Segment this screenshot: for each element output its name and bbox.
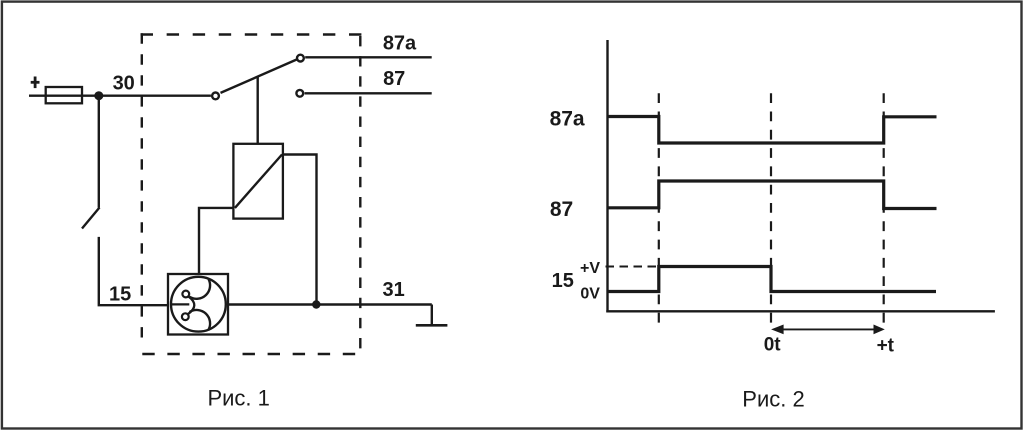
wire blade pivot to coil — [257, 77, 259, 144]
timer contact lower pin — [182, 313, 189, 320]
wire 87a — [305, 56, 432, 58]
dashed marker +t — [883, 93, 885, 322]
svg-text:Рис. 2: Рис. 2 — [742, 387, 804, 412]
fuse F1 — [46, 87, 82, 103]
trace 87a — [608, 117, 937, 144]
relay coil K1 diagonal — [235, 155, 282, 208]
dashed +V level — [606, 265, 659, 267]
wire 30 main — [29, 94, 211, 96]
wire timer to ground — [228, 303, 432, 305]
ground — [431, 305, 433, 326]
svg-text:31: 31 — [382, 279, 404, 301]
svg-text:Рис. 1: Рис. 1 — [207, 385, 269, 410]
timer unit U1 circle — [171, 277, 226, 332]
wire 87 — [305, 92, 432, 94]
contact 87 terminal — [296, 90, 303, 97]
wire to switch S1 — [98, 96, 100, 208]
svg-text:+t: +t — [877, 335, 895, 356]
relay dashed enclosure left — [141, 33, 143, 337]
svg-text:87a: 87a — [383, 33, 417, 55]
wire coil to node 31 — [283, 155, 317, 305]
contact 30 pivot — [212, 93, 219, 100]
svg-text:87a: 87a — [550, 107, 585, 130]
timer contact bar — [171, 303, 189, 305]
timer unit U1 box — [168, 274, 228, 335]
switch S1 blade — [82, 208, 100, 229]
node 31 junction — [312, 300, 320, 308]
timer cam upper arc — [190, 279, 211, 299]
svg-text:87: 87 — [383, 68, 405, 90]
trace 15 — [608, 267, 937, 292]
relay armature blade — [221, 60, 297, 93]
dashed marker t0 — [658, 93, 660, 322]
relay dashed enclosure right — [359, 36, 361, 348]
svg-text:15: 15 — [109, 283, 131, 305]
timer contact lever — [188, 296, 195, 314]
svg-text:0t: 0t — [764, 335, 782, 356]
timer cam lower arc — [190, 310, 211, 330]
timing diagram time axis — [606, 310, 995, 312]
node 30 junction — [94, 91, 103, 100]
dashed marker 0t — [770, 93, 772, 322]
timing diagram vertical axis — [606, 40, 608, 312]
relay dashed enclosure bottom — [142, 353, 355, 355]
relay dashed enclosure top — [141, 33, 362, 35]
trace 87 — [608, 181, 937, 209]
contact 87a terminal — [297, 55, 304, 62]
relay coil K1 box — [233, 144, 283, 219]
svg-text:0V: 0V — [580, 285, 600, 302]
svg-text:15: 15 — [552, 270, 574, 292]
svg-text:+V: +V — [580, 260, 600, 277]
wire coil to timer — [199, 208, 234, 274]
wire switch to 15 — [99, 237, 168, 305]
battery plus label — [31, 81, 40, 84]
timer contact upper pin — [182, 291, 189, 298]
svg-text:87: 87 — [550, 198, 573, 221]
interval arrow — [781, 328, 875, 330]
svg-text:30: 30 — [113, 72, 135, 94]
